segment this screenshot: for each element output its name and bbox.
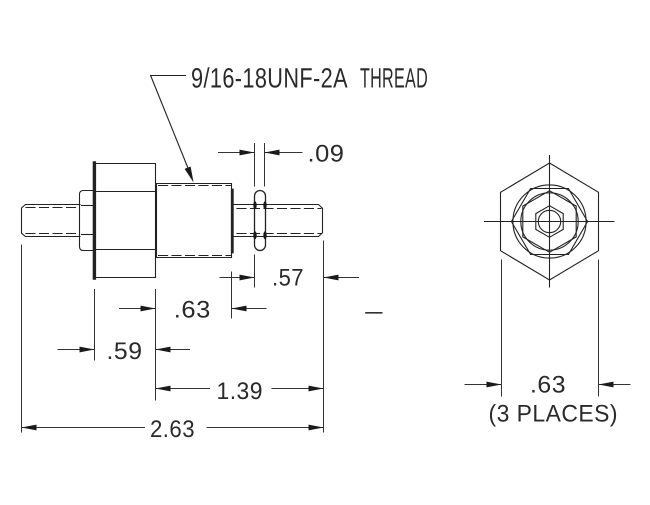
svg-text:.63: .63 <box>530 372 566 399</box>
svg-text:THREAD: THREAD <box>360 63 428 94</box>
svg-text:.63: .63 <box>174 297 211 324</box>
svg-text:.59: .59 <box>107 338 143 365</box>
svg-text:.57: .57 <box>272 265 304 292</box>
svg-text:(3 PLACES): (3 PLACES) <box>489 401 619 428</box>
svg-text:9/16-18UNF-2A: 9/16-18UNF-2A <box>191 63 348 94</box>
svg-text:1.39: 1.39 <box>217 378 264 405</box>
svg-text:.09: .09 <box>308 141 345 168</box>
svg-text:2.63: 2.63 <box>150 416 195 443</box>
